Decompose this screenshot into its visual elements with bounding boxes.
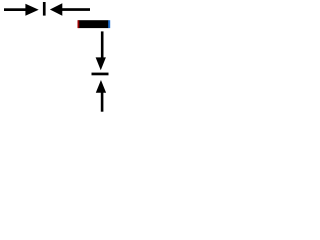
magnet blue right pole edge — [108, 20, 110, 28]
arrow pointing right (top-left) — [4, 4, 39, 16]
arrow pointing up (bottom-right) — [96, 80, 106, 112]
background — [0, 0, 116, 116]
magnet red left pole edge — [78, 20, 80, 28]
tick bar (vertical) between arrows — [43, 2, 46, 16]
horizontal line (surface mark) — [92, 73, 109, 76]
arrow pointing left (top-middle) — [50, 3, 90, 16]
magnet bar black body — [79, 20, 109, 28]
arrow pointing down (below magnet) — [96, 31, 106, 70]
